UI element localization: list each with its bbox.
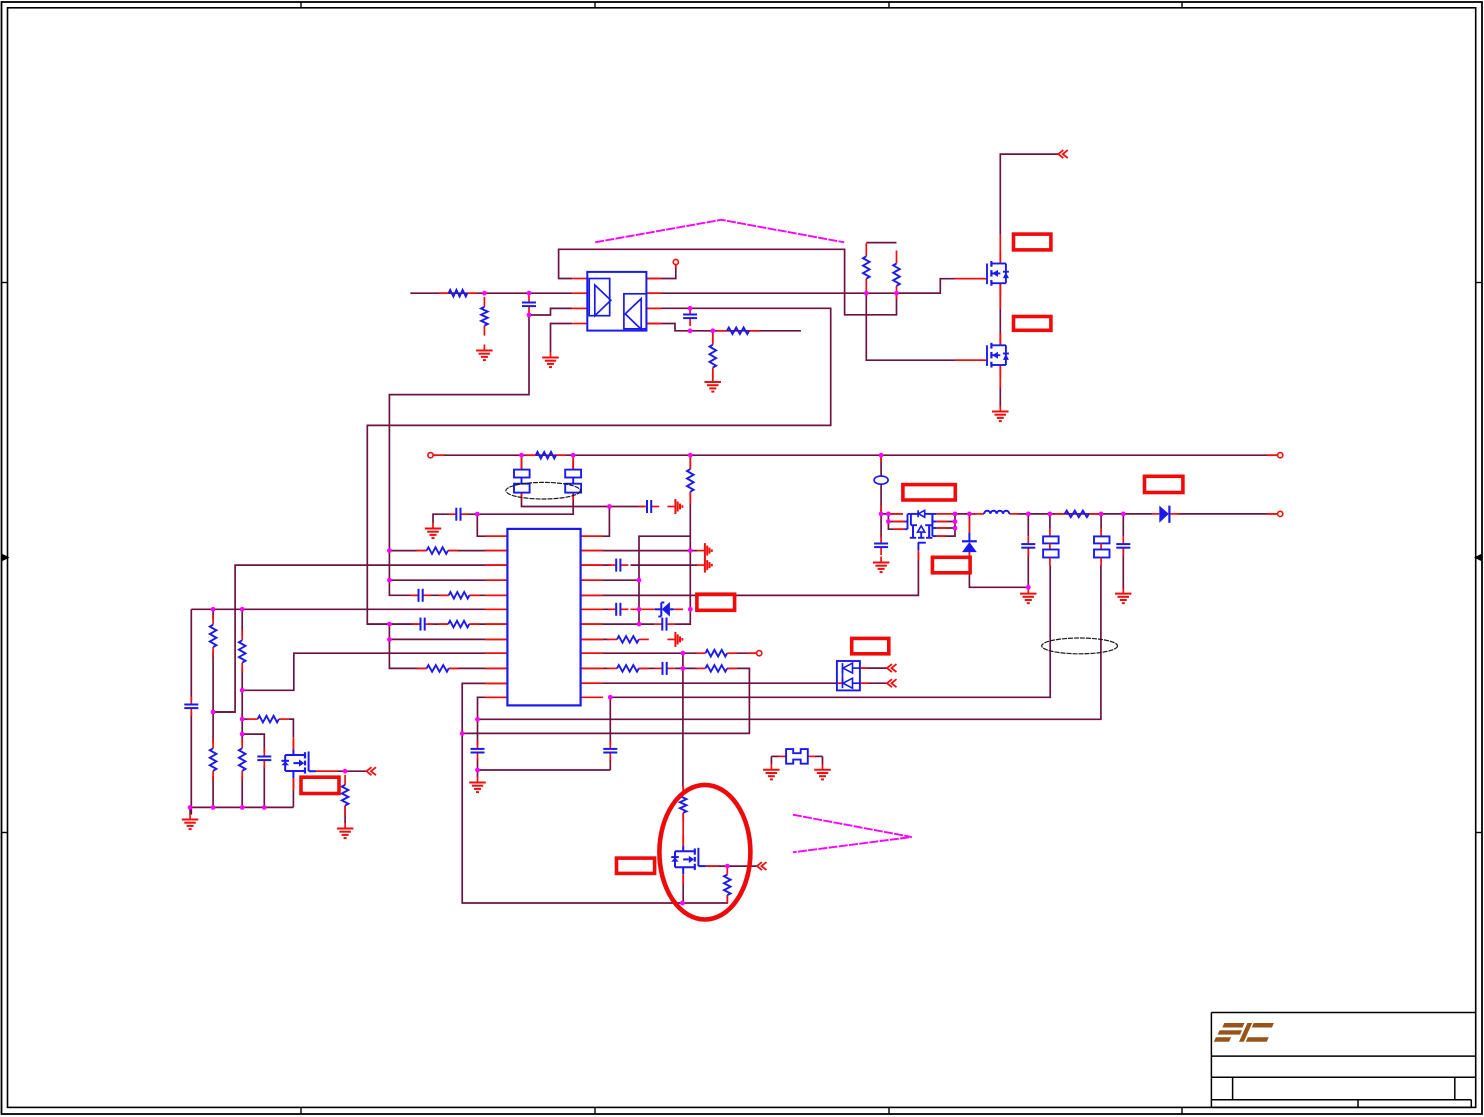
junction rail-xtalR — [571, 453, 576, 458]
wire M3 right terminals — [936, 521, 955, 523]
resistor snubber shunt — [710, 334, 717, 379]
junction row6-lad3 — [240, 607, 245, 612]
junction rail-buck — [879, 453, 884, 458]
highlight ellipse output caps — [1042, 638, 1118, 654]
junction snubber — [710, 328, 715, 333]
junction opto4R — [688, 328, 693, 333]
title block frame — [1211, 1013, 1475, 1108]
resistor ladder3 lower — [239, 738, 246, 781]
value box circled FET — [617, 858, 655, 873]
value box Q1 — [1014, 234, 1051, 250]
wire row10R corner down-left — [462, 668, 749, 733]
wire IC row12R column cap — [609, 697, 611, 745]
ground input shunt — [476, 345, 493, 361]
wire opto pin1 loop via gate resistors rail — [559, 249, 897, 314]
wire left ladder column2 — [212, 609, 214, 619]
wire IC row9R long — [581, 652, 698, 654]
wire output diode to connector — [1177, 513, 1277, 515]
controller IC U1 — [507, 529, 580, 706]
zener diode row6 — [631, 602, 684, 617]
ground row8R rotated — [667, 632, 682, 647]
ground ladder bottom — [182, 814, 199, 830]
wire crystal right chain to gnd cap line — [465, 493, 574, 515]
value box P-FET — [301, 777, 339, 793]
junction row12R — [608, 695, 613, 700]
resistor row7L — [438, 621, 479, 628]
wire crystal rail resistor column — [689, 455, 691, 469]
polarized cap output B — [1094, 529, 1110, 566]
wire output cap column1 — [1027, 514, 1029, 536]
wire IC row7L cap-res — [367, 623, 420, 625]
junction bus719 — [475, 717, 480, 722]
junction circled-gate — [725, 864, 730, 869]
junction rail-l2 — [211, 805, 216, 810]
wire crystal-res column to V1 — [639, 536, 690, 624]
junction pfet-gate — [343, 769, 348, 774]
junction row10-col — [681, 666, 686, 671]
centre arrow marks — [2, 554, 10, 562]
junction V1-row7 — [637, 622, 642, 627]
junction circled-bot — [680, 901, 685, 906]
capacitor row3R — [608, 559, 628, 572]
junction rail-rescol — [688, 453, 693, 458]
junction bottomloop — [460, 731, 465, 736]
connector P-FET drain out — [367, 767, 377, 775]
junction M3-d1 — [953, 512, 958, 517]
junction out4 — [1121, 512, 1126, 517]
wire feedback loop from cap node down-left to IC rows — [389, 315, 529, 595]
wire fuse right leg — [815, 755, 823, 757]
wire IC row6L long — [191, 608, 507, 610]
ground IC bottom caps — [469, 777, 486, 793]
no-connect opto pin1R — [673, 259, 678, 264]
MOSFET Q4 P-channel left — [281, 739, 316, 788]
resistor 719 branch — [248, 716, 289, 723]
wire 719 bus to output cap column2 — [478, 566, 1101, 720]
wire buck switch node diode branch — [968, 514, 970, 533]
wire opto pin4R to snubber resistor — [646, 324, 801, 331]
junction rail-cap — [262, 805, 267, 810]
crystal highlight ellipse — [506, 482, 580, 499]
junction buck-in1 — [879, 512, 884, 517]
junction lad2-mid — [211, 710, 216, 715]
capacitor IC bottom right — [603, 741, 617, 761]
connector dual diode A — [887, 664, 897, 672]
junction input-res — [482, 291, 487, 296]
MOSFET Q5 circled — [671, 835, 706, 884]
junction rail-l3 — [240, 805, 245, 810]
capacitor row7R series — [654, 618, 674, 631]
wire schottky anode to output gnd node — [969, 552, 1028, 587]
ground W2 cap — [425, 523, 441, 539]
wire IC row11R to dual diode — [581, 682, 837, 684]
wire input net to opto pin2 — [410, 292, 572, 294]
wire cap branch 734 — [242, 734, 264, 752]
junction lad3-row9 — [240, 688, 245, 693]
wire IC row4L — [389, 579, 507, 581]
junction M3-d3 — [953, 526, 958, 531]
wire row9 column down to circled circuit — [682, 653, 684, 786]
wire inductor to output — [1017, 513, 1152, 515]
ground fuse left — [763, 764, 780, 780]
ground row2R rotated — [697, 543, 712, 558]
IC U1 pin stubs — [485, 536, 603, 697]
wire IC row11L down to bottom loop — [462, 683, 682, 903]
wire buck input node — [881, 513, 903, 515]
resistor input series — [439, 290, 478, 297]
junction rail-xtalL — [519, 453, 524, 458]
resistor snubber — [717, 328, 759, 335]
capacitor ladder branch — [257, 749, 271, 769]
wire IC row10R res cap res — [581, 667, 609, 669]
capacitor row7L series — [413, 618, 433, 631]
junction row8-tie — [387, 637, 392, 642]
wire gate resistor top rail — [866, 242, 896, 244]
junction fb-row4L — [387, 578, 392, 583]
ferrite bead blue ellipse — [874, 476, 888, 484]
opto U2 pin stubs — [572, 279, 661, 324]
ground M2 source — [992, 406, 1009, 422]
junction out3 — [1099, 512, 1104, 517]
value box Q2 — [1014, 317, 1051, 331]
wire fuse left leg — [771, 755, 778, 757]
resistor circled drain — [680, 787, 687, 821]
ground output cap4 — [1115, 588, 1132, 604]
junction M3-d2 — [953, 519, 958, 524]
output diode — [1152, 506, 1180, 523]
junction row6-lad2 — [211, 607, 216, 612]
junction lad3-719 — [240, 717, 245, 722]
capacitor row10R series — [655, 662, 675, 675]
wire IC row7R cap loop up — [581, 623, 655, 625]
wire IC row2L to feedback column — [389, 550, 426, 552]
wire circled FET gate node to connector — [706, 865, 757, 867]
junction W1-pin1R — [607, 504, 612, 509]
junction out1 — [1026, 512, 1031, 517]
junction M3-s2 — [886, 519, 891, 524]
wire crystal left chain bottom — [522, 493, 645, 507]
resistor row10R b — [695, 665, 737, 672]
capacitor input filter — [522, 295, 536, 315]
misc red wire highlights — [293, 235, 1277, 867]
resistor row5L — [439, 592, 480, 599]
junction lad3-734 — [240, 732, 245, 737]
resistor output sense — [1055, 511, 1099, 518]
junction cap-fb — [527, 313, 532, 318]
resistor row10R a — [607, 665, 649, 672]
wire opto pin1R to no-connect circle — [646, 265, 675, 279]
resistor crystal column — [687, 457, 694, 504]
junction V1-row4 — [637, 578, 642, 583]
wire crystal left chain down to W1 — [521, 455, 523, 469]
wire IC row3R cap to gnd — [581, 564, 611, 566]
junction opto3R — [688, 306, 693, 311]
junction buck-in2 — [886, 512, 891, 517]
wire output cap column4 — [1122, 514, 1124, 536]
wire M1 drain to connector — [1000, 154, 1058, 235]
port output right — [1278, 511, 1283, 516]
wire opto pin2R to MOSFET gate network — [646, 292, 940, 294]
MOSFET Q2 low side — [980, 333, 1009, 377]
ground output cap1 — [1020, 588, 1037, 604]
wire row7-8-10 tie column — [389, 624, 426, 668]
junction out2 — [1048, 512, 1053, 517]
resistor crystal feedback — [526, 452, 566, 459]
wire IC pin1R elbow to W1 — [581, 507, 610, 537]
capacitor opto out — [683, 307, 697, 327]
highlight red ellipse circled circuit — [659, 785, 750, 920]
wire M1 gate — [897, 279, 985, 294]
junction fb-row2L — [387, 548, 392, 553]
capacitor W2 gnd — [448, 508, 468, 521]
opto-coupler U3 — [587, 272, 646, 331]
resistor gate pullup B — [893, 251, 900, 299]
crystal Y1 left element — [514, 463, 530, 493]
wire left ladder mid tie — [213, 711, 235, 713]
ground buck input cap — [873, 557, 890, 573]
junction captie — [475, 768, 480, 773]
resistor row9R — [695, 650, 737, 657]
inductor L1 — [984, 511, 1009, 514]
junction zener-anode — [688, 607, 693, 612]
wire opto pin4L to ground — [551, 324, 573, 353]
junction input-cap — [527, 291, 532, 296]
power MOSFET Q3 buck switch — [905, 510, 937, 552]
wire output cap column2 polarized — [1049, 514, 1051, 529]
resistor P-FET gate pulldown — [342, 775, 349, 816]
junction switch-node — [967, 512, 972, 517]
wire 719 resistor to P-FET drain — [242, 718, 247, 720]
junction W2-pin1L — [475, 512, 480, 517]
capacitor row5L series — [411, 589, 431, 602]
wire IC pin1L elbow to W2 — [477, 514, 507, 536]
wire IC row5R to buck FET gate — [581, 552, 919, 595]
wire circled FET gate resistor corner — [683, 895, 728, 903]
schottky diode buck — [962, 533, 977, 552]
wire buck cap to gnd — [880, 514, 882, 538]
capacitor W1 gnd — [639, 500, 659, 513]
dual diode pack — [837, 661, 860, 690]
wire IC row8R resistor — [581, 638, 609, 640]
magenta callout roof over opto area — [595, 220, 844, 243]
junction row7-tie — [387, 622, 392, 627]
wire M2 source to ground — [999, 386, 1001, 406]
wire IC row12L elbow down caps — [478, 697, 508, 745]
wire IC row4R — [581, 579, 639, 581]
wire dual diode pins to connectors — [860, 667, 887, 669]
wire bottom rail of ladder — [190, 806, 293, 808]
value box output diode — [1145, 476, 1183, 492]
port VCC rail left — [428, 453, 433, 458]
ground fuse right — [814, 764, 831, 780]
port row9R — [757, 651, 762, 656]
wire crystal right chain down to W2 — [572, 455, 574, 469]
wire gate resistor to gnd — [344, 806, 346, 824]
wire IC row3L loop — [213, 565, 507, 712]
wire P-FET source to rail — [292, 778, 294, 807]
port VCC rail right — [1278, 453, 1283, 458]
wire P-FET gate to connector — [316, 770, 367, 772]
junction row9-col — [681, 651, 686, 656]
wire M1 source to M2 drain — [999, 283, 1001, 345]
wire VCC branch down to buck input — [880, 455, 882, 476]
resistor row2L — [417, 547, 458, 554]
resistor input shunt — [481, 297, 488, 336]
wire output cap column3 polarized — [1100, 514, 1102, 529]
capacitor output 2 — [1116, 536, 1130, 556]
wire row6L down to cap ladder — [190, 609, 192, 701]
zone tick marks left/right — [2, 283, 1483, 833]
connector circled gate — [757, 862, 767, 870]
wire left ladder column3 — [241, 609, 243, 635]
junction gateB — [894, 291, 899, 296]
wire IC row12R long to output cap column — [610, 566, 1050, 698]
junction gateA — [864, 291, 869, 296]
resistor ladder2 upper — [210, 615, 217, 657]
crystal Y1 right element — [565, 463, 581, 493]
wire IC row2R to gnd — [581, 550, 697, 552]
capacitor IC bottom left — [471, 741, 485, 761]
FIC company logo — [1214, 1023, 1275, 1042]
resistor circled gate pulldown — [724, 867, 731, 904]
capacitor buck input — [874, 536, 888, 556]
value box Q3 — [903, 485, 955, 500]
wire row5L resistor to pin — [469, 594, 507, 596]
fuse F1 — [779, 749, 816, 764]
capacitor ladder left — [184, 697, 198, 717]
wire M3 left terminal loop — [888, 514, 904, 522]
ground P-FET gate res — [337, 823, 354, 839]
resistor row8R — [607, 636, 649, 643]
connector high-voltage top — [1058, 150, 1068, 158]
zone tick marks top/bottom — [301, 2, 1182, 1114]
magenta callout arrow right — [793, 815, 912, 853]
junction rescol-row2R — [688, 548, 693, 553]
MOSFET Q1 high side — [980, 252, 1009, 296]
polarized cap output A — [1043, 529, 1059, 566]
wire IC row9L elbow — [242, 653, 507, 690]
wire opto pin3R big loop to IC pin7L — [367, 308, 830, 624]
wire IC row10L resistor to pin — [449, 667, 508, 669]
wire IC row5L cap to resistor — [429, 594, 449, 596]
wire row9R res to plug — [735, 652, 757, 654]
wire opto pin3L elbow — [529, 308, 572, 315]
ground opto pin4 — [542, 352, 559, 368]
wire IC row6R cap-zener — [581, 608, 611, 610]
ground W1 rotated — [667, 499, 682, 514]
wire snubber shunt column — [712, 331, 714, 341]
wire VCC rail — [433, 454, 1278, 456]
junction rail-g — [188, 805, 193, 810]
wire M3 drain to inductor — [955, 513, 976, 515]
wire row2L resistor to pin — [448, 550, 507, 552]
capacitor row6R — [608, 603, 628, 616]
value box schottky — [932, 557, 970, 573]
connector dual diode B — [887, 679, 897, 687]
wire circled FET source to bottom loop — [682, 875, 684, 903]
capacitor output 1 — [1021, 536, 1035, 556]
resistor ladder2 lower — [210, 738, 217, 781]
wire gnd stem bottom-left — [189, 807, 191, 814]
value box dual diode — [852, 638, 889, 653]
ground row3R rotated — [697, 558, 712, 573]
wire IC row8L — [389, 638, 507, 640]
wire cap pair bottom tie — [478, 769, 611, 771]
value box row5R — [697, 594, 735, 610]
junction outgnd — [1026, 585, 1031, 590]
resistor ladder3 upper — [239, 630, 246, 672]
resistor row10L — [417, 665, 459, 672]
resistor gate pullup A — [863, 243, 870, 291]
ground snubber — [705, 376, 722, 392]
wire M2 gate — [866, 293, 984, 360]
wire W2 gnd elbow — [433, 514, 450, 523]
junction V1-row6 — [637, 607, 642, 612]
